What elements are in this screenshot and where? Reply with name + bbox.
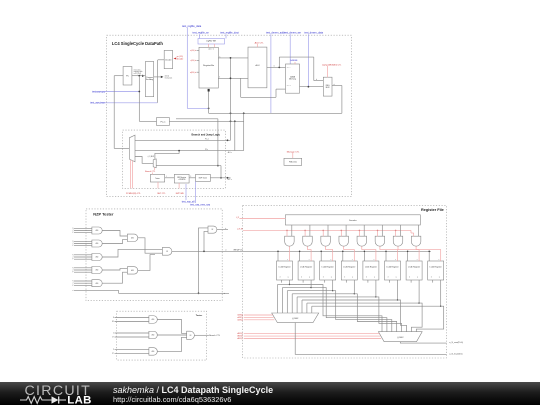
svg-text:LC4 SingleCycle DataPath: LC4 SingleCycle DataPath: [112, 41, 163, 46]
svg-text:LC4b Register: LC4b Register: [343, 266, 355, 269]
svg-text:Manage CTL: Manage CTL: [287, 151, 300, 153]
svg-text:Tester: Tester: [196, 314, 203, 317]
svg-text:LC4b Register: LC4b Register: [430, 266, 442, 269]
svg-text:LC4b Register: LC4b Register: [300, 266, 312, 269]
svg-text:Branch CTL: Branch CTL: [145, 170, 155, 173]
svg-text:in PC[15:0]: in PC[15:0]: [134, 73, 142, 75]
svg-text:LC4b Register: LC4b Register: [365, 266, 377, 269]
svg-text:decode: decode: [177, 59, 184, 61]
svg-text:Branch and Jump Logic: Branch and Jump Logic: [192, 133, 221, 136]
svg-text:test_nzp_new_nzp: test_nzp_new_nzp: [190, 203, 211, 206]
svg-text:P: P: [73, 285, 74, 287]
svg-text:test_regfile_data: test_regfile_data: [182, 24, 202, 28]
svg-text:N: N: [72, 228, 73, 230]
svg-text:test_cur_pc: test_cur_pc: [92, 90, 106, 93]
svg-text:Tester: Tester: [155, 177, 160, 180]
svg-text:LC4b Register: LC4b Register: [322, 266, 334, 269]
svg-text:NZP Tester: NZP Tester: [93, 212, 114, 217]
svg-text:LAB: LAB: [67, 394, 91, 405]
svg-text:P: P: [73, 232, 74, 234]
svg-text:NZ: NZ: [112, 321, 114, 323]
svg-text:P: P: [113, 349, 114, 351]
svg-text:OR: OR: [189, 335, 191, 337]
svg-text:N: N: [72, 281, 73, 283]
svg-text:Decoder: Decoder: [349, 220, 357, 222]
svg-text:test_cur_insn: test_cur_insn: [90, 102, 105, 105]
svg-text:P: P: [73, 245, 74, 247]
svg-text:WE NZP CTL: WE NZP CTL: [234, 249, 244, 251]
svg-text:sakhemka / LC4 Datapath Single: sakhemka / LC4 Datapath SingleCycle: [113, 385, 273, 395]
svg-text:ALU: ALU: [256, 64, 260, 67]
svg-text:Decoding: Decoding: [146, 79, 153, 81]
svg-text:L_R_W: L_R_W: [237, 229, 243, 231]
svg-text:P: P: [73, 259, 74, 261]
svg-text:N: N: [72, 267, 73, 269]
svg-text:Branch CTL: Branch CTL: [209, 335, 221, 337]
svg-text:Decoder: Decoder: [165, 58, 172, 61]
svg-text:N: N: [72, 241, 73, 243]
svg-text:P: P: [73, 272, 74, 274]
svg-text:PCx: PCx: [205, 149, 208, 151]
svg-text:LC4b Register: LC4b Register: [278, 266, 290, 269]
svg-text:o_S_rtsv(15:0): o_S_rtsv(15:0): [449, 352, 462, 355]
svg-text:(15:0) D: (15:0) D: [287, 85, 291, 87]
svg-text:test_dmem_addr: test_dmem_addr: [266, 32, 285, 35]
svg-text:PCMUX(B) CTL: PCMUX(B) CTL: [126, 193, 142, 195]
svg-text:PXB (15:0): PXB (15:0): [289, 162, 297, 164]
svg-text:ALU CTL: ALU CTL: [255, 41, 265, 44]
svg-text:(15:0): (15:0): [165, 75, 170, 77]
svg-text:NZP Tester: NZP Tester: [199, 177, 208, 180]
svg-text:(+1) MUX: (+1) MUX: [148, 156, 154, 158]
svg-text:test_dmem_data: test_dmem_data: [304, 32, 323, 35]
svg-text:(-) MUX: (-) MUX: [292, 318, 299, 320]
svg-text:regFile WE: regFile WE: [206, 40, 217, 42]
svg-text:http://circuitlab.com/cda6q536: http://circuitlab.com/cda6q536326v6: [113, 395, 231, 404]
svg-text:SET CTL: SET CTL: [157, 193, 166, 195]
svg-text:LC4b Register: LC4b Register: [408, 266, 420, 269]
svg-text:Register File: Register File: [421, 208, 444, 212]
svg-text:PC+1: PC+1: [160, 122, 166, 124]
svg-text:OR: OR: [211, 229, 213, 231]
svg-text:PT: PT: [112, 353, 114, 355]
svg-text:NZP s: NZP s: [227, 179, 232, 181]
svg-text:NZP WE: NZP WE: [176, 193, 185, 195]
svg-text:N: N: [72, 254, 73, 256]
svg-text:N: N: [113, 317, 114, 319]
svg-text:OR: OR: [166, 251, 168, 253]
svg-text:(-) MUX: (-) MUX: [397, 337, 404, 339]
svg-text:test_regfile_dout: test_regfile_dout: [220, 32, 239, 35]
svg-text:Z: Z: [113, 333, 114, 335]
svg-text:test_dmem_we: test_dmem_we: [284, 32, 302, 35]
svg-text:LC4b Register: LC4b Register: [386, 266, 398, 269]
svg-text:RegisterFile: RegisterFile: [203, 64, 215, 67]
svg-text:PC+1: PC+1: [205, 139, 209, 141]
svg-text:+ PINECIS: + PINECIS: [178, 179, 185, 181]
svg-text:o_S_rssv(15:0): o_S_rssv(15:0): [449, 342, 463, 344]
svg-text:regInputMUX(B:0) CTL: regInputMUX(B:0) CTL: [322, 63, 341, 66]
svg-text:test_regfile_se: test_regfile_se: [193, 32, 210, 35]
svg-text:ZT: ZT: [112, 337, 114, 339]
svg-text:Memory: Memory: [289, 78, 296, 81]
